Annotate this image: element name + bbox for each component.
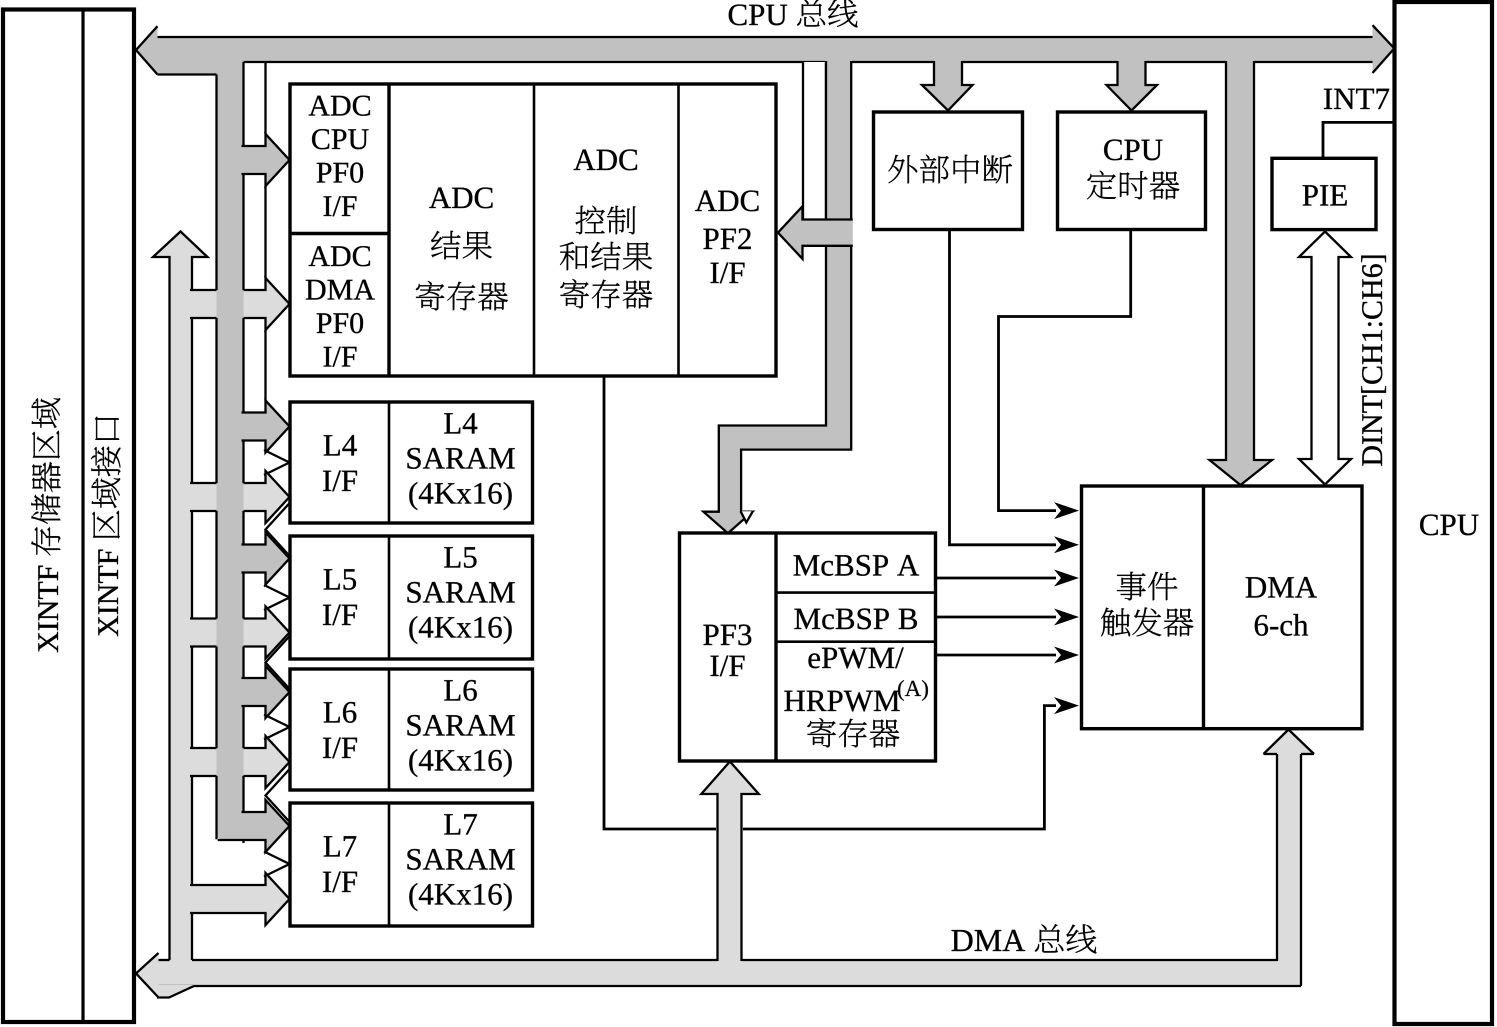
arrow CPU-bus down to DMA 6-ch block bbox=[1210, 61, 1273, 485]
bus CPU vertical (dark gray) bbox=[217, 62, 244, 838]
label ADC PF2 I/F bbox=[695, 191, 717, 211]
arrow CPU-bus to ADC CPU PF0 I/F (dark gray) bbox=[242, 134, 290, 186]
arrow white left at L5/L6 gap bbox=[266, 635, 292, 691]
label CPU bus bbox=[729, 4, 747, 25]
arrow DMA-bus to L7 I/F (light gray) bbox=[190, 873, 290, 925]
divider McBSP B/ePWM bbox=[776, 640, 936, 643]
bus DMA horizontal (bottom) bbox=[155, 960, 1300, 986]
arrow white-channel to L7 SARAM center bbox=[264, 852, 290, 877]
arrow DMA-bus to L6 I/F (light gray) bbox=[190, 736, 290, 788]
arrow white-channel to L5 SARAM center bbox=[264, 585, 290, 610]
label L4 I/F bbox=[324, 435, 340, 455]
label L5 I/F bbox=[324, 569, 340, 589]
label ePWM/HRPWM registers bbox=[808, 653, 819, 668]
label PIE bbox=[1303, 185, 1318, 205]
arrow DMA-bus to L5 I/F (light gray) bbox=[190, 607, 290, 659]
block event-trigger / DMA 6-ch bbox=[1082, 486, 1363, 729]
label L7 SARAM bbox=[444, 814, 460, 834]
wire McBSP B to event-trigger bbox=[936, 616, 1057, 619]
arrow white left at L6/L7 gap bbox=[266, 768, 292, 824]
bus white-channel right (beside ADC PF2 band) bbox=[803, 62, 826, 220]
divider event/DMA bbox=[1202, 486, 1205, 729]
label INT7 bbox=[1324, 89, 1332, 109]
divider L5 bbox=[388, 536, 391, 659]
block XINTF memory region (outer) bbox=[3, 10, 134, 1023]
block CPU (right) bbox=[1395, 2, 1493, 1024]
divider McBSP A/B bbox=[776, 591, 936, 594]
block L6 SARAM bbox=[290, 669, 533, 790]
arrowhead notch white on PF3 feed bbox=[741, 511, 753, 522]
arrow DMA-bus up to DMA 6-ch block bbox=[1264, 730, 1315, 985]
arrow CPU-bus down to external-interrupt block bbox=[922, 61, 973, 111]
label DMA 6-ch bbox=[1246, 577, 1266, 597]
label L7 I/F bbox=[324, 836, 340, 856]
wire ePWM to event-trigger bbox=[936, 654, 1057, 657]
label L6 I/F bbox=[324, 702, 340, 722]
block CPU timer bbox=[1058, 112, 1206, 230]
arrow CPU-bus to L7 I/F (dark gray) bbox=[218, 800, 290, 852]
wire external-interrupt to event-trigger bbox=[950, 230, 1057, 545]
block L4 SARAM bbox=[290, 402, 533, 523]
divider XINTF boxes bbox=[81, 10, 84, 1023]
block L7 SARAM bbox=[290, 803, 533, 926]
divider ADC col3 bbox=[677, 84, 680, 376]
arrow CPU-bus to L5 I/F (dark gray) bbox=[242, 533, 290, 585]
block PF3 I/F + peripherals (outer) bbox=[680, 533, 936, 761]
label McBSP B bbox=[794, 609, 820, 629]
wire ADC to event-trigger (via bottom) bbox=[604, 377, 716, 830]
arrow white left at L4/L5 gap bbox=[266, 502, 292, 558]
label external interrupt bbox=[888, 155, 917, 184]
bus white-channel (XINTF side channel) bbox=[244, 62, 266, 843]
label XINTF memory region (rotated) bbox=[31, 398, 60, 652]
label DINT[CH1:CH6] (rotated) bbox=[1361, 256, 1386, 466]
arrowhead DMA bus left outer wing bbox=[159, 985, 195, 998]
arrowhead CPU bus right (into CPU) bbox=[1373, 25, 1395, 73]
label L4 SARAM bbox=[444, 413, 460, 433]
bus CPU horizontal (top) bbox=[150, 37, 1380, 62]
divider L6 bbox=[388, 669, 391, 790]
arrow white-channel to L4 SARAM center bbox=[264, 450, 290, 475]
label XINTF region interface (rotated) bbox=[91, 417, 120, 637]
divider ADC col1 bbox=[387, 84, 390, 376]
arrow CPU-bus down to CPU-timer block bbox=[1107, 61, 1158, 111]
label L5 SARAM bbox=[444, 547, 460, 567]
wire INT7 PIE to CPU bbox=[1323, 122, 1394, 158]
arrow CPU-bus to L4 I/F (dark gray) bbox=[242, 401, 290, 453]
arrow CPU-bus to L6 I/F (dark gray) bbox=[242, 666, 290, 718]
label CPU (right block) bbox=[1420, 514, 1438, 535]
arrowhead CPU bus left (into XINTF) bbox=[136, 26, 158, 74]
arrow CPU-bus band to ADC PF2 I/F (left) bbox=[778, 206, 853, 259]
wire McBSP A to event-trigger bbox=[936, 577, 1057, 580]
block PIE bbox=[1272, 158, 1376, 229]
arrow CPU-bus down to PF3 I/F (Z-shaped band) bbox=[703, 61, 851, 533]
divider L4 bbox=[388, 402, 391, 523]
block L5 SARAM bbox=[290, 536, 533, 659]
block external interrupt bbox=[874, 112, 1023, 230]
label event trigger bbox=[1117, 572, 1146, 601]
bus DMA vertical (light gray) with up arrowhead bbox=[153, 232, 208, 964]
block ADC (outer) bbox=[290, 84, 776, 376]
arrow DMA-bus up to PF3 I/F bbox=[701, 762, 759, 962]
divider L7 bbox=[388, 803, 391, 926]
arrow DMA-bus to ADC DMA PF0 I/F (light gray) bbox=[190, 278, 290, 330]
label ADC DMA PF0 I/F bbox=[309, 246, 330, 266]
label McBSP A bbox=[794, 555, 820, 575]
label DMA bus bbox=[952, 930, 973, 951]
wire CPU-timer to event-trigger bbox=[999, 230, 1131, 511]
arrow double white PIE-DMA (DINT[CH1:CH6]) bbox=[1299, 232, 1351, 485]
label ADC control and result registers bbox=[574, 150, 596, 170]
arrow DMA-bus to L4 I/F (light gray) bbox=[190, 471, 290, 523]
arrowhead DMA bus left (into XINTF) bbox=[136, 953, 159, 998]
divider ADC CPU/DMA bbox=[290, 232, 389, 235]
divider PF3/periph bbox=[774, 533, 777, 761]
label L6 SARAM bbox=[444, 680, 460, 700]
label ADC CPU PF0 I/F bbox=[309, 96, 330, 116]
divider ADC col2 bbox=[533, 84, 536, 376]
label PF3 I/F bbox=[703, 625, 718, 645]
label ADC result registers bbox=[429, 188, 451, 208]
label CPU timer bbox=[1104, 139, 1122, 160]
arrow white-channel to L6 SARAM center bbox=[264, 715, 290, 740]
